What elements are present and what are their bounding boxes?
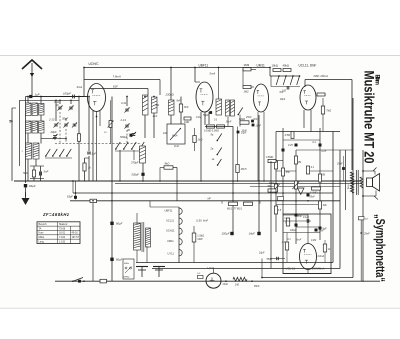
scan page top edge — [0, 54, 400, 56]
svg-text:187-57: 187-57 — [72, 236, 80, 239]
IF transformer T2 primary — [216, 99, 222, 115]
svg-text:0.25: 0.25 — [288, 144, 293, 147]
capacitor 25nF tone — [342, 167, 345, 170]
capacitor 100uF — [230, 232, 233, 235]
junction dots on buses — [111, 180, 113, 182]
resistor 25k screen — [317, 93, 325, 96]
transformer secondary — [146, 228, 151, 247]
band switch S1 contacts — [46, 149, 50, 156]
svg-text:5mA: 5mA — [210, 72, 216, 76]
wire speaker vertical — [362, 150, 364, 282]
wire UCH pins — [92, 111, 94, 181]
svg-text:0.1μF: 0.1μF — [303, 217, 309, 219]
wire bus right of zigzag — [225, 280, 227, 282]
svg-text:8nF: 8nF — [184, 105, 189, 109]
svg-text:1μF: 1μF — [35, 93, 40, 97]
antenna coil L4 — [26, 121, 32, 133]
svg-text:UCH11: UCH11 — [166, 228, 175, 232]
svg-text:5nF: 5nF — [44, 170, 49, 174]
wire main bus B — [73, 192, 333, 194]
svg-text:Mittel: Mittel — [39, 236, 45, 239]
svg-text:Lang: Lang — [39, 240, 45, 243]
wire T2 — [218, 68, 220, 100]
resistor 17kOhm — [321, 106, 324, 114]
svg-text:8mF: 8mF — [297, 240, 302, 242]
svg-text:„Symphonetta“: „Symphonetta“ — [373, 214, 387, 282]
capacitor 14uF — [257, 232, 260, 235]
svg-text:60μF: 60μF — [116, 258, 123, 262]
antenna coil L6 — [39, 121, 45, 133]
svg-text:5M: 5M — [268, 185, 271, 188]
resistor 0.5MOhm — [274, 161, 277, 169]
wire IF T1 — [170, 68, 172, 101]
antenna coil L2 — [32, 103, 38, 116]
capacitor 60uF b — [110, 258, 113, 261]
svg-text:ZF=468kHz: ZF=468kHz — [42, 212, 70, 217]
svg-text:0.25: 0.25 — [322, 151, 327, 153]
svg-text:14μF: 14μF — [249, 232, 256, 236]
svg-text:Kurz: Kurz — [39, 232, 45, 235]
svg-text:Bereich: Bereich — [39, 223, 48, 226]
capacitor 63uF on bus — [74, 196, 77, 199]
wire UBF anode — [194, 68, 196, 83]
svg-text:65nF: 65nF — [254, 285, 260, 288]
scan page bottom edge — [0, 307, 400, 309]
svg-text:UCL11: UCL11 — [166, 218, 174, 222]
wire detector row — [205, 126, 233, 128]
svg-text:50: 50 — [9, 120, 13, 124]
component 101 box — [90, 199, 97, 202]
mains switch — [73, 278, 83, 282]
svg-text:0.5MΩ: 0.5MΩ — [266, 156, 273, 159]
svg-text:4mF: 4mF — [153, 115, 158, 118]
IF transformer T2 coupling — [226, 100, 230, 116]
resistor ladder r3 — [274, 206, 277, 214]
svg-text:Skalenz.: Skalenz. — [59, 223, 69, 226]
IF T1 secondary resistor — [179, 104, 182, 112]
svg-text:100μF: 100μF — [290, 230, 297, 232]
capacitor 50nF UBF — [209, 111, 212, 114]
wire bus A2 parallel — [115, 182, 362, 184]
wire pot chain — [270, 75, 299, 77]
wire left drop — [25, 97, 27, 184]
svg-text:180: 180 — [235, 284, 240, 287]
svg-text:1.5kΩ: 1.5kΩ — [197, 233, 204, 237]
wire padder — [142, 163, 144, 173]
svg-text:7.8mA: 7.8mA — [113, 74, 121, 78]
capacitor 0.1uF — [87, 151, 91, 153]
wire heater feed — [178, 207, 180, 263]
resistor M0.1 b (bus) — [244, 202, 253, 205]
svg-text:pF: pF — [55, 103, 59, 107]
capacitor on bottom left — [78, 280, 81, 283]
wire mid frame — [111, 97, 113, 282]
electrolytic triangle — [298, 188, 305, 195]
capacitor 64uF to ground — [24, 184, 27, 187]
capacitor 10uF — [237, 131, 240, 134]
wire UBF pins down — [200, 112, 202, 181]
hbox 5M left — [268, 189, 276, 192]
svg-text:8mA: 8mA — [172, 134, 178, 138]
resistor 0.1/2 small — [278, 197, 284, 201]
svg-text:16μF: 16μF — [259, 252, 265, 255]
wire transformer to bus — [136, 250, 138, 263]
wire det col2 — [258, 115, 260, 232]
resistor lad r5 — [294, 156, 297, 164]
wire rail x276 — [275, 132, 277, 233]
wire UY11 top — [213, 269, 215, 274]
wire rail x320 — [319, 128, 321, 240]
resistor 6.3M — [312, 187, 321, 190]
capacitor plate T a — [136, 266, 148, 268]
left frame wire — [11, 108, 13, 181]
svg-text:0.1M: 0.1M — [196, 117, 201, 119]
svg-text:1M2: 1M2 — [244, 90, 250, 94]
svg-text:1M3: 1M3 — [244, 63, 250, 67]
wire to ground — [25, 188, 27, 198]
wire osc coils — [144, 96, 146, 98]
svg-text:500pF: 500pF — [132, 173, 140, 177]
capacitor 100pF coupling — [72, 95, 74, 99]
pot 10k with arrow — [109, 121, 112, 128]
tube UCL11 output section — [300, 244, 317, 270]
capacitor 25nF right — [360, 232, 362, 234]
svg-text:20nF: 20nF — [222, 283, 229, 286]
svg-text:M0.1 .77 M0.1: M0.1 .77 M0.1 — [227, 207, 243, 210]
tone switch contact 3 — [292, 75, 294, 77]
capacitor 50nF lad — [295, 214, 298, 217]
wire ladder cross rows — [276, 131, 340, 133]
svg-text:TONL: TONL — [347, 184, 349, 191]
tone switch contact 4 — [299, 75, 301, 77]
resistor 0.1M a — [207, 125, 215, 128]
resistor 40k lad — [318, 201, 321, 209]
component SZ box — [359, 217, 365, 220]
wire 5k/5n row — [33, 166, 35, 170]
svg-text:UY11: UY11 — [168, 251, 175, 255]
wire 1M3 feed — [250, 68, 252, 70]
wire rail x296 — [295, 150, 297, 244]
resistor 1.5kOhm 10W dropper — [192, 233, 196, 242]
trimmer C 3-11pF (band 1) — [58, 106, 62, 108]
antenna coil L3 — [39, 104, 45, 116]
svg-text:UM11: UM11 — [257, 64, 265, 68]
wire 55nF branch — [261, 259, 263, 278]
svg-text:60μF: 60μF — [116, 222, 123, 226]
capacitor 20nF output — [315, 229, 318, 232]
hbox 0.5M left — [268, 159, 276, 162]
capacitor lad c2 — [282, 149, 285, 152]
wire rail x283 — [282, 128, 284, 214]
svg-text:UM11: UM11 — [167, 239, 174, 243]
resistor 1k — [83, 163, 86, 171]
svg-text:60kΩ: 60kΩ — [239, 117, 245, 121]
svg-text:UCH/C: UCH/C — [89, 62, 100, 66]
wire top bus to pot chain — [269, 68, 271, 77]
wire NFF down right — [351, 80, 353, 171]
mains transformer winding — [134, 223, 141, 250]
trimmer C 30pF — [64, 123, 68, 125]
wire under switches — [271, 86, 300, 88]
wire loop bottom 1 — [136, 262, 333, 264]
resistor NTC zigzag — [233, 277, 247, 281]
svg-text:M0.5: M0.5 — [241, 167, 247, 171]
svg-text:0.1M: 0.1M — [269, 183, 274, 185]
wire top HT bus — [84, 67, 270, 69]
svg-text:10W: 10W — [197, 237, 203, 241]
output transformer primary — [350, 172, 353, 193]
trimmer 2-13pF osc — [125, 124, 129, 126]
svg-text:10kΩ: 10kΩ — [272, 63, 278, 67]
wire AVC feed line — [20, 99, 80, 101]
svg-text:2-13: 2-13 — [48, 118, 55, 122]
svg-text:8nF: 8nF — [298, 216, 303, 218]
svg-text:50μF: 50μF — [203, 114, 209, 117]
ground (antenna circuit) — [22, 198, 30, 205]
svg-text:500pF: 500pF — [120, 135, 128, 139]
svg-text:7-100: 7-100 — [59, 236, 66, 239]
wire loop bottom 3 — [262, 277, 353, 279]
trimmer C 18pF — [73, 123, 77, 125]
svg-text:TA: TA — [39, 227, 42, 230]
scanned page area tint — [0, 55, 400, 308]
wire OT feed — [345, 150, 347, 210]
capacitor 0.25uF — [295, 144, 298, 147]
wire antenna node to UCH grid — [32, 96, 88, 98]
svg-text:10nF: 10nF — [242, 131, 248, 133]
svg-text:Musiktruhe MT 20: Musiktruhe MT 20 — [362, 71, 377, 164]
output transformer secondary — [360, 177, 363, 188]
tone switch contact 2 — [285, 75, 287, 77]
capacitor lad c5 — [307, 194, 310, 197]
wire main bus C — [70, 200, 340, 202]
svg-text:1-150: 1-150 — [59, 240, 66, 243]
capacitor 60uF a — [110, 222, 113, 225]
wire trimmer osc column — [126, 97, 128, 107]
loudspeaker — [367, 178, 373, 187]
trimmer 30pF osc — [132, 133, 136, 135]
component 101 fuse — [100, 279, 107, 283]
svg-text:81F: 81F — [113, 85, 118, 89]
svg-text:3mA: 3mA — [77, 85, 83, 89]
svg-text:64μF: 64μF — [29, 184, 36, 188]
svg-text:ΔWNΩ: ΔWNΩ — [122, 277, 130, 279]
svg-text:5kΩ: 5kΩ — [23, 171, 29, 175]
wire output box bottom — [283, 273, 331, 275]
svg-text:40pF: 40pF — [280, 98, 286, 101]
resistor M0.5 AVC — [236, 165, 239, 173]
resistor 7.5 cathode — [323, 244, 326, 252]
svg-text:10nF: 10nF — [256, 125, 262, 128]
resistor vol pot 0.1M — [274, 184, 277, 192]
trimmer C 60pF — [69, 106, 73, 108]
svg-text:0.2M: 0.2M — [311, 240, 316, 242]
wire cathode column — [88, 97, 90, 152]
resistor 1M7 — [184, 117, 191, 120]
wire UCH anode to top bus — [83, 68, 85, 97]
svg-text:4mF: 4mF — [174, 145, 179, 148]
resistor 1M2 — [243, 85, 251, 88]
svg-text:63μF: 63μF — [67, 195, 73, 199]
resistor 1kOhm lamp — [193, 136, 196, 143]
svg-text:40kΩ: 40kΩ — [283, 63, 289, 67]
oscillator coil L9 — [143, 95, 149, 115]
wire rail x271 — [270, 161, 272, 269]
capacitor 10nF — [252, 124, 255, 127]
svg-text:8nF: 8nF — [280, 92, 285, 94]
wire 9k to bus — [160, 167, 164, 169]
svg-text:50nF: 50nF — [226, 122, 232, 124]
svg-text:U.SV, 8mF: U.SV, 8mF — [196, 220, 209, 223]
svg-text:25nF: 25nF — [336, 163, 343, 166]
svg-text:0.5M: 0.5M — [285, 134, 290, 137]
capacitor 1uF (antenna series) — [29, 95, 32, 98]
node grid line — [60, 96, 88, 98]
capacitor 25nF — [251, 120, 254, 123]
svg-text:49-16: 49-16 — [72, 232, 79, 235]
svg-text:UBF11: UBF11 — [199, 64, 209, 68]
wire switch row — [45, 157, 72, 159]
resistor 60kOhm — [240, 121, 249, 124]
svg-text:30pF: 30pF — [62, 117, 68, 121]
capacitor 0.1uF output — [295, 224, 298, 227]
wire speaker terminals — [373, 168, 377, 172]
pot 0.1M arrow — [294, 181, 297, 189]
wire rail x353 loop — [352, 98, 354, 278]
trimmer 3-11pF osc — [125, 108, 129, 110]
output transformer core — [356, 170, 358, 195]
wire bus drops — [72, 181, 74, 193]
wire right edge drop — [362, 196, 364, 282]
wire gang row — [41, 138, 66, 140]
tuning indicator box 8mA — [167, 124, 185, 144]
resistor 0.5M ladder — [291, 132, 294, 139]
svg-text:100μF: 100μF — [222, 232, 230, 236]
resistor lad r8 — [318, 174, 321, 182]
capacitor 100pF (UCL grid) — [286, 86, 288, 89]
antenna coil L7 — [26, 143, 32, 159]
svg-text:25nF: 25nF — [245, 116, 252, 119]
resistor 0.1M lad — [306, 166, 309, 174]
antenna — [22, 60, 42, 69]
svg-text:16-51: 16-51 — [59, 232, 66, 235]
tone switch contact 1 — [278, 75, 280, 77]
svg-text:23mA: 23mA — [317, 254, 325, 258]
antenna coil L8 — [33, 143, 39, 159]
svg-text:1μF: 1μF — [92, 152, 97, 156]
svg-text:20nF: 20nF — [309, 197, 316, 199]
IF transformer T1 primary — [169, 100, 175, 115]
svg-text:1MΩ: 1MΩ — [184, 121, 189, 124]
capacitor 55nF in — [276, 257, 278, 260]
voltage selector box (dashed) — [123, 259, 134, 279]
trimmer C 2-13pF — [54, 123, 58, 125]
wire bus C through — [221, 201, 223, 204]
capacitor 500pF — [130, 134, 133, 137]
resistor M0.1 a (bus) — [229, 202, 238, 205]
capacitor plate T b — [153, 266, 165, 268]
wire rail x333 loop — [332, 132, 334, 263]
coil L11 padder — [140, 146, 146, 163]
switch contact det — [238, 108, 242, 115]
wire UCL pins — [303, 110, 305, 128]
output stage enclosure box — [283, 214, 331, 274]
svg-text:5nF: 5nF — [254, 119, 259, 121]
fuse SiF — [198, 275, 204, 278]
capacitor 500pF padder — [141, 173, 144, 176]
antenna coil L5 — [32, 121, 38, 133]
svg-text:7kΩ: 7kΩ — [326, 109, 331, 113]
svg-text:2-13: 2-13 — [120, 118, 127, 122]
wire UM11 pins — [257, 112, 259, 181]
resistor 0.5M (AVC) — [77, 134, 80, 142]
svg-text:8nF: 8nF — [177, 101, 182, 103]
svg-text:2a: 2a — [210, 148, 214, 151]
svg-text:370pF: 370pF — [131, 161, 139, 165]
wire antenna down — [31, 77, 33, 97]
antenna coil L1 (hatched) — [26, 103, 32, 116]
svg-text:230kΩ: 230kΩ — [165, 93, 175, 97]
capacitor 0.1uF lad — [319, 144, 322, 147]
oscillator coil L10 — [152, 97, 158, 113]
resistor 5M — [281, 168, 284, 176]
gang capacitor dashed link — [59, 112, 61, 144]
wire AVC column — [78, 97, 80, 182]
capacitor 250pF output — [306, 219, 308, 223]
svg-text:3-11: 3-11 — [121, 101, 127, 105]
capacitor 8uF lad — [319, 227, 322, 230]
trimmer C 20pF — [53, 135, 57, 137]
svg-text:100pF: 100pF — [63, 92, 71, 96]
svg-text:25nF: 25nF — [363, 233, 370, 236]
svg-text:NFF, 28mA: NFF, 28mA — [314, 74, 328, 78]
capacitor 5nF — [39, 172, 41, 176]
resistor 0.1M b — [217, 125, 225, 128]
svg-text:6.3MΩ: 6.3MΩ — [310, 192, 318, 195]
wire rail x340 loop — [339, 150, 341, 269]
svg-text:75-08: 75-08 — [59, 227, 66, 230]
wire main bus A — [14, 180, 362, 182]
svg-text:UBF11: UBF11 — [165, 208, 173, 212]
svg-text:HF: HF — [208, 198, 212, 201]
wire loop bottom 2 — [152, 268, 340, 270]
svg-text:0.1MΩ 0.1MΩ: 0.1MΩ 0.1MΩ — [204, 129, 219, 132]
wire junctions left coils — [27, 97, 29, 104]
IF transformer T2 secondary — [231, 100, 235, 116]
alignment table — [37, 222, 80, 244]
resistor 0.2M grid — [285, 242, 288, 250]
wire trimmer column — [59, 100, 61, 104]
band switch S2 contacts — [116, 142, 120, 149]
wire output box inner — [283, 220, 311, 222]
wire main bottom bus — [55, 280, 380, 282]
wire AVC segment — [250, 186, 340, 188]
capacitor 4nF output — [286, 218, 289, 226]
svg-text:UCL11, 8mF: UCL11, 8mF — [299, 64, 317, 68]
svg-text:9kΩ: 9kΩ — [165, 161, 170, 165]
svg-text:20pF: 20pF — [50, 130, 57, 134]
svg-text:1kΩ: 1kΩ — [198, 138, 203, 142]
